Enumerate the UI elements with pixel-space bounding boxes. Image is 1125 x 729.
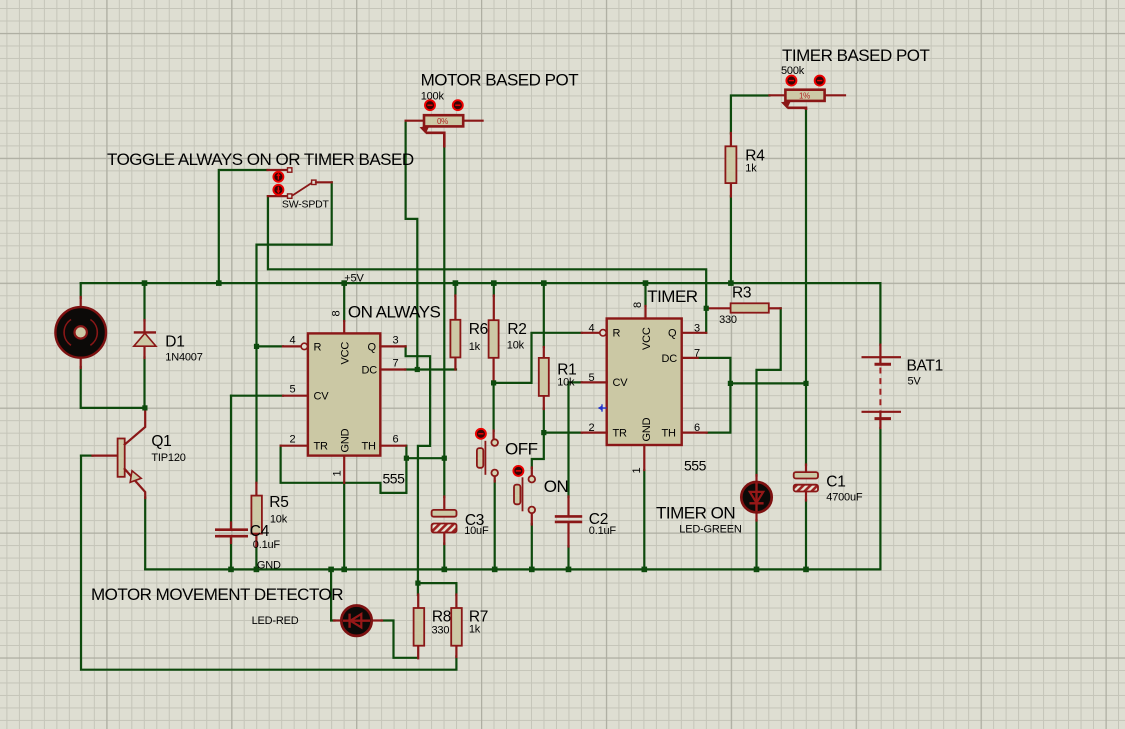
wire U2 pin3 up to R3 node <box>705 308 707 333</box>
wire bottom loop to R7 <box>81 456 456 670</box>
button OFF state dot <box>476 429 486 439</box>
wire node to U1 pin4 <box>257 345 283 347</box>
svg-text:6: 6 <box>694 422 700 434</box>
svg-text:TH: TH <box>662 428 677 440</box>
svg-text:0.1uF: 0.1uF <box>589 525 617 537</box>
svg-text:ON: ON <box>544 477 569 496</box>
wire R3 right to LED D3 <box>757 308 781 475</box>
svg-text:5: 5 <box>589 372 595 384</box>
junction dot TH node right wiper <box>442 456 447 461</box>
svg-text:ON ALWAYS: ON ALWAYS <box>348 303 441 322</box>
wire Q1 base left <box>81 455 93 457</box>
svg-text:MOTOR BASED POT: MOTOR BASED POT <box>421 71 579 90</box>
wire battery bottom <box>879 428 881 569</box>
svg-text:TIMER: TIMER <box>647 287 698 306</box>
svg-text:4: 4 <box>589 323 595 335</box>
resistor R1 <box>539 347 577 409</box>
junction dots on GND rail <box>228 567 809 573</box>
svg-text:1k: 1k <box>745 163 757 175</box>
wire GND rail <box>145 568 880 570</box>
svg-text:CV: CV <box>314 391 330 403</box>
svg-text:TIMER ON: TIMER ON <box>656 504 735 523</box>
resistor R4 <box>725 133 765 197</box>
wire +5V rail <box>81 282 881 284</box>
svg-text:R6: R6 <box>469 321 488 338</box>
svg-text:LED-RED: LED-RED <box>252 615 299 627</box>
wire C2 bottom <box>567 546 569 569</box>
junction dot R8 R7 Q out <box>415 581 420 586</box>
wire U2 CV to C2 <box>569 382 582 497</box>
svg-text:DC: DC <box>362 364 378 376</box>
svg-text:SW-SPDT: SW-SPDT <box>282 199 330 211</box>
svg-text:D1: D1 <box>165 333 184 350</box>
capacitor C3 <box>432 497 489 545</box>
wire timer pot left <box>731 96 770 134</box>
junction dot DC node <box>415 367 420 372</box>
wire ON button bottom <box>531 524 533 569</box>
SPDT state dot up <box>273 172 283 182</box>
svg-text:10uF: 10uF <box>464 525 489 537</box>
wire Q1 emitter to GND rail <box>144 498 146 570</box>
svg-text:C1: C1 <box>826 474 845 491</box>
wire D1 top <box>143 283 145 320</box>
svg-text:0%: 0% <box>437 117 448 126</box>
wire R6 top <box>454 283 456 296</box>
wire DC node to C1 node <box>730 382 806 384</box>
svg-text:8: 8 <box>632 302 644 308</box>
svg-text:0.1uF: 0.1uF <box>253 539 281 551</box>
junction dot Q2 R3 switch <box>704 306 709 311</box>
svg-text:GND: GND <box>340 428 352 452</box>
svg-text:GND: GND <box>641 417 653 441</box>
SPDT state dot down <box>273 185 283 195</box>
wire C1 bottom <box>805 500 807 569</box>
wire R1 top <box>543 283 545 347</box>
svg-text:1k: 1k <box>469 341 481 353</box>
diode D1 <box>134 320 203 364</box>
resistor R3 <box>707 285 781 327</box>
wire R2 top <box>493 283 495 296</box>
svg-text:VCC: VCC <box>641 327 653 350</box>
battery BAT1 <box>862 345 943 428</box>
svg-text:1N4007: 1N4007 <box>165 352 202 364</box>
junction dot R2 bottom OFF <box>491 380 496 385</box>
svg-text:3: 3 <box>393 335 399 347</box>
svg-text:Q: Q <box>668 328 677 340</box>
svg-text:330: 330 <box>719 314 737 326</box>
junction dot U1 pin4 tee <box>254 344 259 349</box>
svg-text:Q1: Q1 <box>151 433 171 450</box>
wire U1 CV line <box>231 395 283 397</box>
junction dot TR ON R1 <box>541 430 546 435</box>
svg-text:330: 330 <box>432 625 450 637</box>
wire SPDT bottom throw to R3 node <box>268 196 706 308</box>
switch SW-SPDT <box>268 168 332 211</box>
svg-text:8: 8 <box>331 311 343 317</box>
svg-text:4: 4 <box>290 335 296 347</box>
wire motor bottom to node A <box>81 367 145 408</box>
svg-text:4700uF: 4700uF <box>826 492 863 504</box>
wire C4 bottom <box>230 538 232 570</box>
motor M1 <box>55 297 106 368</box>
wire LED red left to GND <box>331 569 334 620</box>
wire C3 bottom <box>443 544 445 570</box>
wire U1 pin1 to GND <box>343 483 345 570</box>
wire SPDT top throw to rail <box>219 170 268 283</box>
svg-text:2: 2 <box>290 434 296 446</box>
svg-text:CV: CV <box>613 377 629 389</box>
wire OFF button top <box>493 383 495 431</box>
wire TH node to C3 <box>406 458 444 497</box>
button OFF <box>477 431 498 482</box>
pot RV1 state dot left <box>425 100 435 110</box>
svg-text:10k: 10k <box>557 377 575 389</box>
svg-text:TIP120: TIP120 <box>151 452 185 464</box>
svg-text:7: 7 <box>694 348 700 360</box>
wire U1 TR-TH link <box>281 446 407 493</box>
wire U2 pin1 to GND <box>643 470 645 569</box>
svg-text:555: 555 <box>383 471 406 487</box>
svg-text:5: 5 <box>290 384 296 396</box>
svg-text:1k: 1k <box>469 624 481 636</box>
svg-text:1%: 1% <box>799 91 810 100</box>
svg-text:6: 6 <box>393 434 399 446</box>
junction dots on +5V rail <box>142 280 734 286</box>
resistor R2 <box>489 296 527 383</box>
capacitor C1 <box>794 465 863 504</box>
wire U2 VCC <box>644 283 646 306</box>
svg-text:R: R <box>613 328 621 340</box>
svg-text:5V: 5V <box>908 376 922 388</box>
wire motor pot wiper down <box>443 147 445 458</box>
resistor R6 <box>450 296 488 370</box>
wire R4 bottom <box>730 196 732 283</box>
svg-text:C4: C4 <box>250 523 270 540</box>
svg-text:TOGGLE ALWAYS ON OR TIMER BASE: TOGGLE ALWAYS ON OR TIMER BASED <box>107 150 414 169</box>
resistor R5 <box>251 483 288 547</box>
pot RV1 state dot right <box>453 100 463 110</box>
transistor Q1 <box>93 408 186 498</box>
wire U1 VCC <box>343 283 345 321</box>
wire U2 DC TH link <box>698 358 731 433</box>
pot RV2 state dot left <box>786 76 796 86</box>
junction dot node A motor D1 Q1 <box>142 405 147 410</box>
svg-text:GND: GND <box>257 560 281 572</box>
svg-text:DC: DC <box>662 353 678 365</box>
svg-text:TH: TH <box>362 441 377 453</box>
wire U1 pin3 to R8 node <box>406 346 431 583</box>
svg-text:10k: 10k <box>507 340 525 352</box>
wire SPDT common down-left <box>257 182 332 483</box>
wire R2 bottom to U2 pin4 <box>494 333 582 383</box>
svg-text:TR: TR <box>314 441 329 453</box>
capacitor C4 <box>215 523 280 552</box>
wire motor top to rail <box>80 283 82 298</box>
svg-text:BAT1: BAT1 <box>907 358 943 375</box>
wire R8 top <box>417 583 419 595</box>
svg-text:MOTOR MOVEMENT DETECTOR: MOTOR MOVEMENT DETECTOR <box>91 585 343 604</box>
wire motor pot left down to DC node <box>406 121 418 370</box>
svg-text:OFF: OFF <box>505 440 538 459</box>
svg-text:3: 3 <box>694 323 700 335</box>
op-amp U1 555 timer ON ALWAYS <box>281 311 406 487</box>
svg-text:R5: R5 <box>269 494 288 511</box>
junction dot C1 wiper <box>803 381 808 386</box>
wire R8 R7 top link <box>418 583 457 595</box>
node marker blue <box>598 404 607 411</box>
wire ON button top <box>532 433 544 468</box>
svg-text:VCC: VCC <box>340 342 352 365</box>
resistor R7 <box>451 595 488 658</box>
svg-text:1: 1 <box>332 471 344 477</box>
svg-text:7: 7 <box>393 358 399 370</box>
wire LED red right to R8 bottom <box>382 621 418 658</box>
button ON state dot <box>513 466 523 476</box>
capacitor C2 <box>555 497 617 547</box>
wire R1 bottom to U2 TR <box>544 409 582 433</box>
svg-text:R2: R2 <box>507 321 526 338</box>
wire C4 top <box>230 396 232 528</box>
LED D2 red <box>252 606 382 636</box>
svg-text:R: R <box>314 341 322 353</box>
LED D3 green <box>679 475 771 536</box>
svg-text:10k: 10k <box>270 514 288 526</box>
svg-text:555: 555 <box>684 458 707 474</box>
svg-text:2: 2 <box>589 422 595 434</box>
svg-text:TR: TR <box>613 428 628 440</box>
wire U1 DC line <box>405 368 456 370</box>
junction dot TH node left <box>404 456 409 461</box>
svg-text:+5V: +5V <box>344 273 364 285</box>
pot RV2 timer based <box>770 65 846 110</box>
wire D1 bottom <box>143 358 145 408</box>
svg-text:1: 1 <box>631 468 643 474</box>
resistor R8 <box>414 595 452 659</box>
svg-text:TIMER BASED POT: TIMER BASED POT <box>782 46 930 65</box>
op-amp U2 555 timer TIMER <box>582 302 707 474</box>
wire R5 bottom <box>255 546 257 569</box>
wire LED green bottom <box>755 520 757 569</box>
svg-text:R8: R8 <box>432 609 451 626</box>
svg-text:Q: Q <box>368 341 377 353</box>
wire battery top <box>879 283 881 345</box>
pot RV1 motor based <box>406 91 483 148</box>
svg-text:LED-GREEN: LED-GREEN <box>679 524 742 536</box>
junction dot DC TH link <box>728 381 733 386</box>
wire OFF button bottom <box>494 481 496 569</box>
svg-text:R3: R3 <box>732 285 751 302</box>
pot RV2 state dot right <box>815 76 825 86</box>
wire timer pot wiper down to C1 <box>805 110 807 466</box>
button ON <box>514 468 535 525</box>
